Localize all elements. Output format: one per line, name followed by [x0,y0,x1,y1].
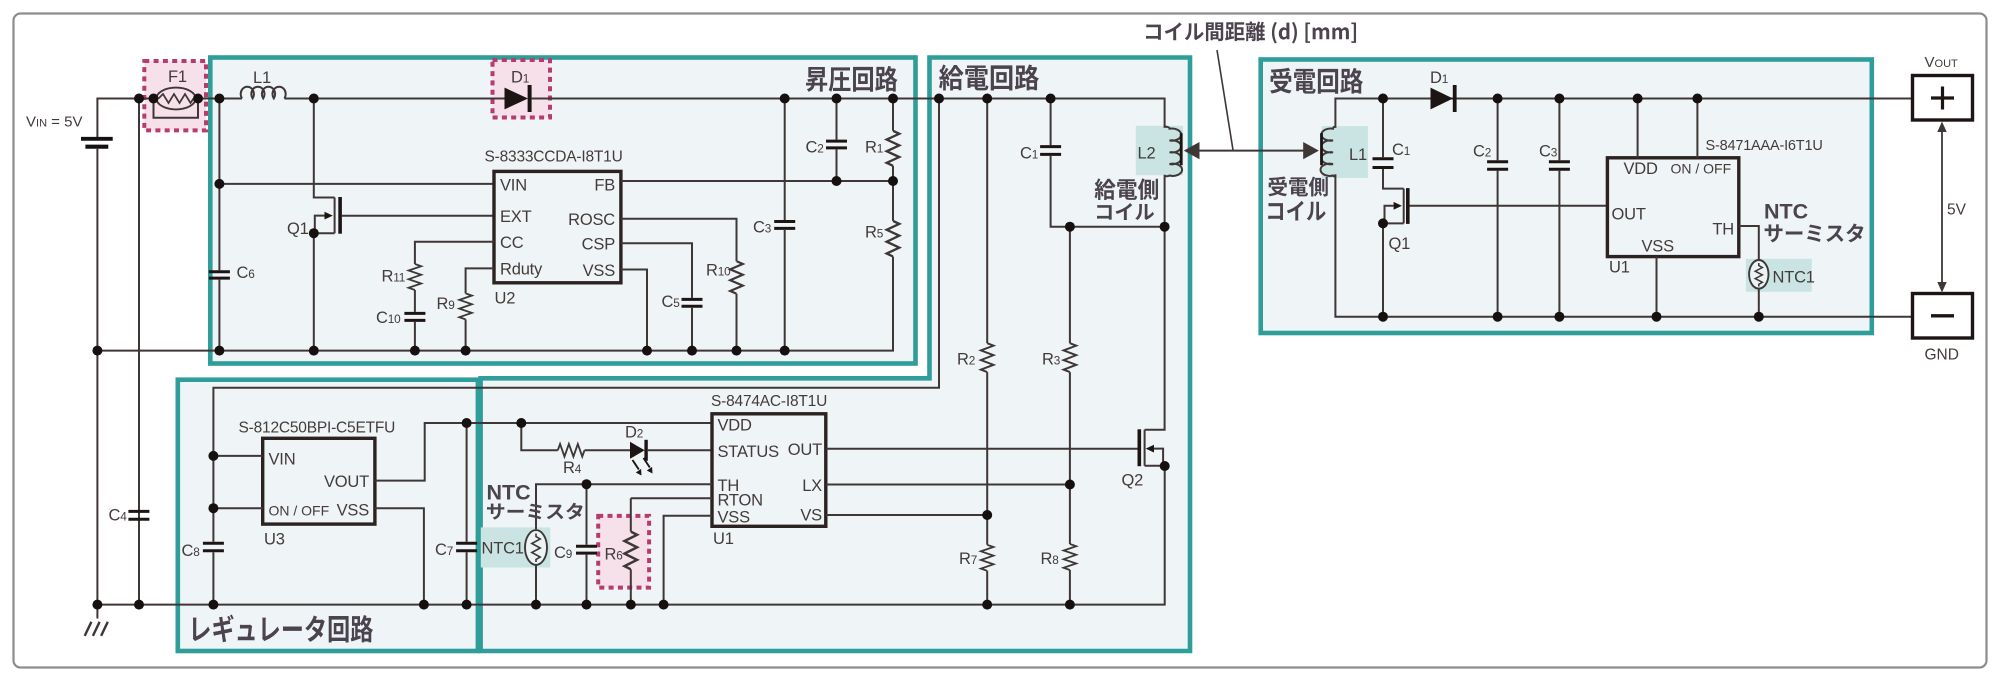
wire: U1 VS to R2 rail [826,514,987,516]
svg-text:5V: 5V [1947,202,1967,219]
diode D1 (receiver) [1431,85,1457,112]
junction (139,604.6) [134,600,144,610]
junction (219.4,98.5) [214,94,224,104]
junction (1559.4,316.7) [1554,312,1564,322]
resistor R11 [409,264,422,290]
fuse F1 pink dashed highlight [144,61,206,130]
svg-text:D1: D1 [511,69,529,87]
svg-text:C1: C1 [1020,145,1038,163]
junction (1069.9,484.5) [1065,480,1075,490]
junction (219.4,183.9) [214,179,224,189]
svg-text:CC: CC [500,234,524,252]
capacitor C7 rail [466,423,468,605]
junction (736.5,350.6) [732,346,742,356]
section box: receiver circuit 受電回路 [1261,60,1872,334]
wire: U2 FB node [621,180,893,182]
junction (663.6,604.6) [659,600,669,610]
svg-text:NTC: NTC [487,481,531,505]
section box: boost circuit 昇圧回路 [210,58,915,364]
svg-text:STATUS: STATUS [718,443,780,461]
junction (313.8,350.6) [309,346,319,356]
LED D2 [630,440,653,476]
wire: receiver L1 bottom rail [1335,174,1912,317]
junction (1497.6,98.5) [1493,94,1503,104]
wire: U2 VSS down [621,270,647,351]
svg-text:S-8471AAA-I6T1U: S-8471AAA-I6T1U [1706,138,1823,154]
thermistor NTC1 (feeder) [525,484,587,604]
junction (1559.4,98.5) [1554,94,1564,104]
junction (153.5,98.5) [149,94,159,104]
junction (784.7,350.6) [780,346,790,356]
wire: U3 ON/OFF rail [213,456,262,542]
svg-text:R5: R5 [865,224,884,242]
svg-text:VDD: VDD [1624,160,1659,178]
wire: D1 to feeder box [532,99,1165,128]
wire: R2 to R7 [986,372,988,545]
section label 昇圧回路 [806,66,898,92]
resistor R2 rail [986,99,988,344]
wire: battery bottom rail [96,149,98,605]
wire: U3 VSS down [375,508,424,604]
fuse F1 [154,88,199,118]
svg-text:VIN: VIN [269,451,296,469]
capacitor C3 rail [784,99,786,351]
svg-text:VOUT: VOUT [324,473,369,491]
svg-text:C4: C4 [109,507,128,525]
svg-text:CSP: CSP [582,236,616,254]
svg-text:C2: C2 [1473,143,1491,161]
svg-text:L2: L2 [1138,145,1156,163]
capacitor C9 [576,546,597,553]
svg-text:C3: C3 [1539,143,1558,161]
junction (213.4,508.2) [208,503,218,513]
junction (784.7,98.5) [780,94,790,104]
svg-text:S-812C50BPI-C5ETFU: S-812C50BPI-C5ETFU [239,420,396,437]
svg-text:C9: C9 [554,544,572,562]
transistor Q1 (receiver) [1383,188,1607,317]
label コイル (feeder) [1097,203,1154,220]
resistor R4 [558,444,585,457]
svg-text:GND: GND [1925,347,1959,364]
inductor L2 (feeder coil) [1165,127,1182,177]
capacitor C2 (receiver) rail [1497,99,1499,317]
capacitor C3 (receiver) rail [1558,99,1560,317]
svg-text:VSS: VSS [1642,238,1675,256]
svg-text:VDD: VDD [718,417,753,435]
junction (893,98.5) [888,94,898,104]
resistor R6 pink dashed highlight [598,516,649,588]
junction (987.2,98.5) [982,94,992,104]
svg-text:NTC: NTC [1764,200,1808,224]
junction (1383,316.7) [1378,312,1388,322]
wire: U3 VOUT to VDD line [375,423,712,481]
coil distance double arrow [1184,142,1319,159]
svg-text:ON / OFF: ON / OFF [1671,161,1732,177]
wire: L2 bottom to Q2 drain [1145,175,1165,430]
highlight: feeder coil L2 [1136,126,1183,175]
resistor R8 [1064,544,1077,570]
resistor R5 [892,181,894,221]
svg-text:U1: U1 [713,530,734,548]
capacitor C6 [209,272,230,278]
svg-text:U1: U1 [1609,259,1630,277]
capacitor C3 [774,222,795,229]
junction (939,98.5) [934,94,944,104]
junction (692,350.6) [687,346,697,356]
wire: U1 LX to R3 rail [826,484,1070,486]
capacitor C7 [456,543,477,551]
svg-text:Rduty: Rduty [500,261,543,279]
svg-text:L1: L1 [253,69,271,87]
svg-text:S-8474AC-I8T1U: S-8474AC-I8T1U [711,393,827,410]
label サーミスタ (receiver) [1765,223,1864,242]
svg-text:C7: C7 [435,541,453,559]
transistor Q1 (boost) [314,99,494,351]
junction (466.6,604.6) [462,600,472,610]
battery VIN plates [81,137,113,141]
svg-text:R8: R8 [1041,550,1060,568]
svg-text:R11: R11 [382,268,406,286]
svg-text:R7: R7 [959,550,977,568]
svg-text:C6: C6 [237,264,256,282]
5V arrow between terminals [1937,122,1946,293]
wire: U2 Rduty to R9 [466,268,494,293]
junction (1758.8,316.7) [1754,312,1764,322]
wire: U1 ON/OFF up [1696,99,1698,158]
label コイル間距離 (d) [mm] [1146,22,1356,44]
resistor R1 [892,99,894,182]
junction (97.4,604.6) [92,600,102,610]
section box: feeder circuit 給電回路 (L-shape) [481,58,1190,652]
junction (213.4,455.9) [208,451,218,461]
svg-text:Q1: Q1 [1389,235,1411,253]
diode D1 (boost) [505,85,532,112]
junction (1050.6,98.5) [1046,94,1056,104]
ground symbol [85,605,108,636]
svg-text:S-8333CCDA-I8T1U: S-8333CCDA-I8T1U [485,149,623,166]
junction (97.4,350.6) [92,346,102,356]
diode D1 pink dashed highlight [493,60,551,118]
junction (1497.6,316.7) [1493,312,1503,322]
svg-text:R6: R6 [605,546,624,564]
junction (198,98.5) [193,94,203,104]
svg-text:C5: C5 [662,293,681,311]
junction (423.9,604.6) [419,600,429,610]
junction (521.3,423) [516,418,526,428]
svg-text:NTC1: NTC1 [1773,269,1815,287]
section label 受電回路 [1270,68,1363,94]
junction (987.2,604.6) [982,600,992,610]
wire: boost ground rail [97,257,893,351]
IC U1 S-8471AAA-I6T1U [1607,158,1738,257]
section box: regulator circuit レギュレータ回路 [178,380,478,651]
svg-text:D1: D1 [1430,69,1448,87]
capacitor C8 [203,543,224,551]
capacitor C1 (feeder) [1040,147,1061,155]
wire: 5V feed to U3 VIN [213,99,939,456]
svg-text:NTC1: NTC1 [482,540,524,558]
inductor L1 (receiver coil) [1321,127,1336,177]
resistor R3 rail [1069,227,1071,344]
junction (647,350.6) [642,346,652,356]
svg-text:C3: C3 [753,219,772,237]
svg-text:VSS: VSS [718,509,751,527]
svg-text:C8: C8 [182,542,201,560]
junction (466.6,423) [462,418,472,428]
svg-text:R4: R4 [563,459,582,477]
label 給電側 [1095,178,1158,200]
wire: U2 CSP to C5 [621,243,692,298]
svg-text:VSS: VSS [337,502,370,520]
svg-text:Q1: Q1 [287,220,309,238]
capacitor C2 (receiver) [1487,162,1508,169]
resistor R6 [631,498,712,531]
svg-text:OUT: OUT [788,441,822,459]
wire: U2 CC to R11 [415,242,494,264]
inductor L1 (boost) [241,87,286,99]
junction (213.4,604.6) [208,600,218,610]
svg-text:R2: R2 [957,351,975,369]
wire: main bottom ground rail [97,466,1164,605]
highlight: NTC1 receiver [1746,259,1812,292]
svg-text:VS: VS [800,507,822,525]
wire: U1 VSS down [1656,257,1658,317]
capacitor C1 (receiver) rail [1383,99,1404,189]
wire: U3 VIN pin [213,455,262,457]
svg-text:ROSC: ROSC [568,211,615,229]
label 受電側 [1268,176,1328,196]
svg-text:R10: R10 [706,262,731,280]
thermistor NTC1 (receiver) [1739,226,1769,317]
junction (987.2,515) [982,510,992,520]
junction (630.8,604.6) [626,600,636,610]
svg-text:RTON: RTON [718,492,763,510]
capacitor C2 [826,141,847,148]
resistor R9 [459,293,472,319]
capacitor C1 (feeder) rail [1051,99,1165,227]
wire: L1 to diode D1 [284,98,504,100]
svg-text:Q2: Q2 [1122,472,1144,490]
svg-text:LX: LX [802,477,822,495]
svg-text:U3: U3 [264,531,285,549]
junction (893,181) [888,176,898,186]
capacitor C1 (receiver) [1373,159,1394,168]
junction (1383,98.5) [1378,94,1388,104]
svg-text:VIN = 5V: VIN = 5V [26,114,82,131]
wire: receiver top rail [1335,99,1912,128]
svg-text:D2: D2 [625,424,643,442]
junction (1383,223.4) [1378,218,1388,228]
junction (414.9,350.6) [410,346,420,356]
svg-text:R9: R9 [437,295,455,313]
junction (586.5,604.6) [582,600,592,610]
svg-text:EXT: EXT [500,208,532,226]
IC U1 S-8474AC-I8T1U [712,414,826,527]
wire: U1 VDD up [1637,99,1639,158]
junction (1637.6,98.5) [1633,94,1643,104]
label サーミスタ (feeder) [487,503,583,520]
highlight: receiver coil L1 [1322,126,1368,178]
junction (536,604.6) [531,600,541,610]
wire: input rail x139 [138,99,140,605]
junction (1697.4,98.5) [1692,94,1702,104]
junction (313.8,233.2) [309,228,319,238]
junction (1164.7,466) [1160,461,1170,471]
wire: battery top rail [97,99,153,138]
capacitor C5 [682,299,703,306]
capacitor C10 [404,313,425,320]
section label レギュレータ回路 [193,614,373,642]
section label 給電回路 [939,65,1039,91]
wire: TH line to U1 [587,483,713,485]
svg-text:VIN: VIN [500,177,527,195]
transistor Q2 [826,429,1165,466]
junction (836.5,181) [832,176,842,186]
capacitor C2 rail [836,99,838,182]
svg-text:OUT: OUT [1612,206,1646,224]
svg-text:C10: C10 [376,309,401,327]
svg-text:ON / OFF: ON / OFF [269,503,330,519]
capacitor C3 (receiver) [1549,162,1570,169]
junction (1069.9,604.6) [1065,600,1075,610]
terminal VOUT plus [1913,76,1973,121]
resistor R10 [730,261,743,294]
svg-text:L1: L1 [1349,146,1367,164]
wire: R3 to R8 [1069,372,1071,544]
junction (1069.9,226.7) [1065,222,1075,232]
wire: U1 VSS down [664,516,712,605]
leader line from title [1217,50,1233,150]
wire: F1 to boost L1 [198,98,242,100]
highlight: NTC1 feeder [481,527,551,567]
resistor R7 [981,545,994,571]
svg-text:R3: R3 [1042,351,1061,369]
wire: C6/VIN tee rail [219,99,494,271]
svg-text:FB: FB [594,177,615,195]
junction (465.6,350.6) [461,346,471,356]
svg-text:F1: F1 [168,68,187,86]
capacitor C4 [128,511,149,519]
capacitor C9 rail [586,484,588,604]
junction (586.5,484.2) [582,479,592,489]
terminal GND minus [1913,294,1973,339]
svg-text:R1: R1 [865,139,883,157]
junction (219.4,350.6) [214,346,224,356]
wire: U2 ROSC to R10 [621,219,737,262]
IC U2 S-8333CCDA-I8T1U [494,171,621,282]
label コイル (receiver) [1268,201,1325,221]
junction (1164.6,226.7) [1160,222,1170,232]
wire: VDD drop to R4/D2 [521,423,558,450]
svg-text:U2: U2 [495,290,516,308]
junction (139,98.5) [134,94,144,104]
IC U3 S-812C50BPI-C5ETFU [263,438,375,524]
junction (1656.5,316.7) [1652,312,1662,322]
junction (313.8,98.5) [309,94,319,104]
junction (836.5,98.5) [832,94,842,104]
svg-text:TH: TH [1712,221,1734,239]
svg-text:C2: C2 [806,139,824,157]
svg-text:VSS: VSS [583,262,616,280]
wire: D2 to U2 STATUS [648,449,712,451]
svg-text:C1: C1 [1392,141,1410,159]
